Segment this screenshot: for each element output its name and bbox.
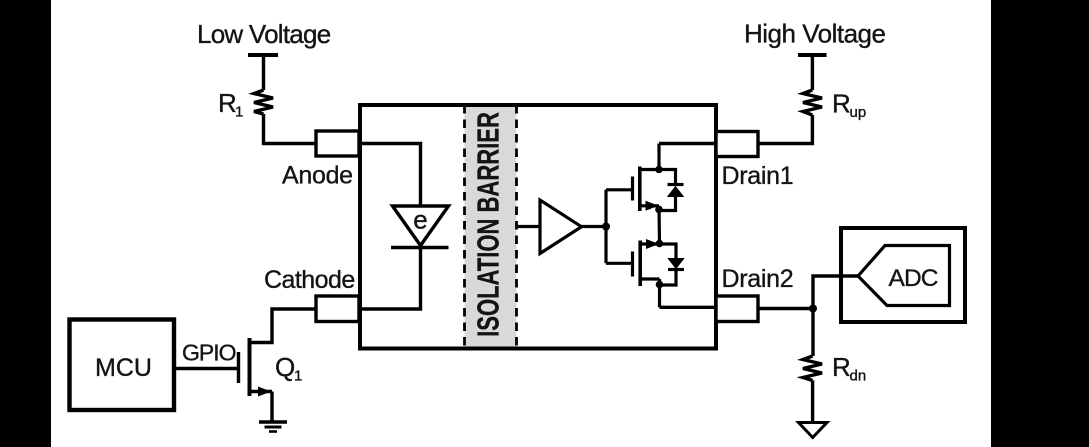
ground (open triangle)	[799, 423, 828, 438]
pin box Drain1	[716, 132, 758, 157]
junction dot M2 drain	[656, 281, 664, 289]
M2 drain drop wire	[658, 279, 661, 307]
Q1 source arrow	[258, 387, 271, 397]
wire LED to Cathode pin	[359, 248, 421, 310]
Q1 drain wire to Cathode pin	[250, 309, 317, 343]
wire Rdn to ground	[811, 381, 814, 423]
M1 body diode triangle	[667, 186, 684, 197]
svg-text:ADC: ADC	[889, 265, 938, 292]
M1 source lead	[640, 204, 659, 207]
resistor R1	[254, 90, 273, 114]
pin box Drain2	[716, 296, 758, 322]
svg-text:R: R	[832, 89, 851, 119]
M1 drain lead	[640, 168, 659, 171]
wire MCU to Q1 gate	[172, 367, 237, 370]
junction dot M2 source	[656, 240, 664, 248]
bottom rail to Drain2 pin	[660, 306, 717, 309]
M1 source arrow	[646, 201, 659, 211]
buffer output wire	[582, 225, 607, 228]
isolation barrier left dashed line	[463, 105, 466, 347]
gate bus vertical wire	[604, 190, 607, 263]
svg-text:GPIO: GPIO	[182, 340, 236, 366]
svg-text:Drain2: Drain2	[722, 265, 794, 293]
ground IEC bar 3	[269, 430, 277, 433]
M2 source lead	[640, 242, 659, 245]
top rail to Drain1 pin	[659, 142, 716, 145]
right black margin bar	[991, 0, 1089, 447]
wire R1 to Anode pin	[264, 114, 319, 144]
junction dot Drain2 node	[809, 305, 817, 313]
isolation barrier gray band	[465, 107, 517, 347]
ADC chevron shape	[858, 246, 950, 306]
Q1 source to ground wire	[270, 392, 273, 423]
wire junction to ADC	[813, 276, 858, 309]
M2 body diode branch wire	[660, 244, 677, 258]
M2 drain lead	[640, 277, 659, 280]
M2 channel bar	[638, 241, 642, 287]
svg-text:e: e	[413, 204, 427, 234]
svg-text:ISOLATION BARRIER: ISOLATION BARRIER	[471, 112, 506, 337]
svg-text:R: R	[832, 352, 851, 382]
M1 diode return wire	[659, 197, 676, 211]
MCU box	[70, 320, 175, 411]
svg-text:Cathode: Cathode	[264, 266, 355, 294]
M2 diode return wire	[660, 270, 677, 286]
wire supply to R1	[262, 55, 265, 90]
junction dot M1 source	[655, 206, 663, 214]
svg-text:Drain1: Drain1	[722, 162, 794, 190]
M1 body diode branch wire	[659, 170, 676, 185]
M1 gate bar	[631, 177, 634, 201]
svg-text:up: up	[850, 104, 867, 121]
wire supply to Rup	[811, 55, 814, 90]
wire Anode pin to LED	[359, 144, 421, 206]
junction dot buffer output	[602, 223, 610, 231]
M1 body diode cathode bar	[668, 183, 684, 186]
M2 gate wire	[606, 262, 631, 265]
isolation barrier right dashed line	[515, 105, 518, 347]
pin box Cathode	[316, 296, 359, 322]
M1 channel bar	[638, 167, 642, 212]
M1 gate wire	[606, 188, 631, 191]
high-voltage supply bar	[798, 53, 827, 57]
svg-text:dn: dn	[850, 368, 867, 385]
transistor Q1 channel bar	[248, 338, 252, 396]
M2 body diode cathode bar	[668, 268, 684, 271]
buffer input wire	[517, 225, 540, 228]
junction dot M1 drain	[655, 166, 663, 174]
svg-text:MCU: MCU	[95, 354, 152, 382]
svg-text:1: 1	[294, 368, 302, 385]
buffer amplifier triangle	[540, 200, 582, 254]
M2 source arrow	[646, 239, 659, 249]
LED emitter triangle	[393, 206, 449, 246]
low-voltage supply bar	[248, 53, 278, 57]
M1 drain riser wire	[657, 144, 660, 170]
svg-text:Anode: Anode	[282, 162, 353, 190]
wire junction to Rdn	[811, 309, 814, 357]
ADC outer box	[841, 228, 965, 322]
source bus wire	[657, 206, 661, 244]
svg-text:High Voltage: High Voltage	[744, 18, 885, 48]
svg-text:R: R	[218, 88, 237, 118]
LED cathode bar	[391, 246, 449, 249]
resistor Rdn	[803, 356, 822, 381]
svg-text:Low Voltage: Low Voltage	[197, 19, 331, 49]
wire Drain2 pin to junction	[758, 307, 813, 310]
transistor Q1 gate bar	[237, 352, 240, 383]
Q1 source lead	[250, 390, 273, 393]
left black margin bar	[0, 0, 51, 447]
ground IEC bar 2	[265, 426, 282, 429]
wire Rup to Drain1 pin	[758, 115, 812, 144]
M2 gate bar	[631, 252, 634, 277]
svg-text:1: 1	[235, 104, 243, 121]
M2 body diode triangle	[667, 258, 684, 269]
svg-text:Q: Q	[275, 352, 295, 382]
pin box Anode	[316, 131, 359, 156]
resistor Rup	[803, 90, 822, 115]
IC body box	[360, 105, 716, 349]
ground IEC bar 1	[259, 420, 287, 423]
